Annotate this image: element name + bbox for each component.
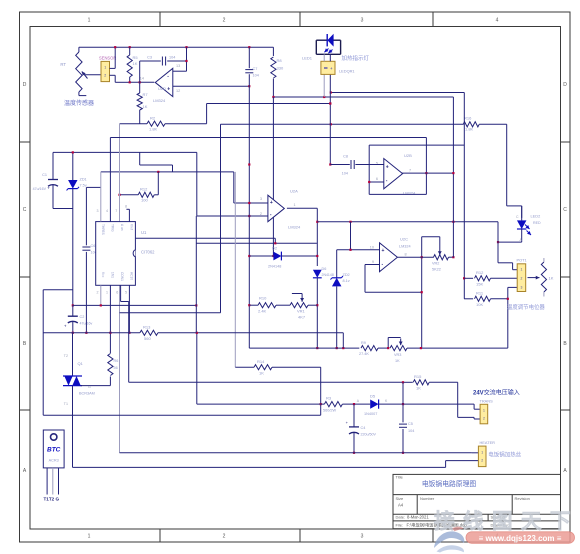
svg-text:100: 100 [141, 198, 148, 203]
svg-text:1.8K: 1.8K [465, 127, 474, 132]
svg-text:HEATER: HEATER [480, 440, 496, 445]
svg-text:13: 13 [176, 64, 180, 68]
svg-text:1K: 1K [549, 276, 554, 281]
wire [196, 333, 198, 404]
svg-text:2: 2 [223, 18, 226, 24]
svg-text:2: 2 [481, 459, 483, 463]
svg-text:温度传感器: 温度传感器 [64, 99, 94, 107]
resistor R10 [249, 296, 290, 314]
capacitor C6 [82, 187, 100, 332]
svg-text:T1T2 G: T1T2 G [44, 497, 60, 502]
op-amp U2C [370, 237, 411, 272]
svg-text:56: 56 [114, 366, 118, 370]
node [109, 332, 111, 334]
wire [43, 209, 73, 416]
wire top rail [79, 46, 274, 48]
node [100, 304, 198, 306]
svg-text:LM324: LM324 [153, 98, 166, 103]
svg-text:ZD2: ZD2 [343, 273, 350, 277]
wire [320, 367, 322, 415]
svg-text:1K: 1K [143, 104, 148, 109]
svg-text:8: 8 [125, 205, 127, 209]
potentiometer VR2 [422, 237, 454, 272]
svg-text:1N4007: 1N4007 [364, 412, 377, 416]
resistor R15 [403, 374, 458, 391]
capacitor C4 [346, 404, 377, 453]
svg-text:TRIG: TRIG [111, 224, 115, 232]
wire pin6 [106, 285, 110, 353]
node [421, 256, 423, 258]
wire [110, 75, 130, 82]
node [85, 332, 87, 334]
svg-text:2: 2 [260, 212, 262, 216]
node [248, 202, 250, 204]
wire [110, 47, 116, 68]
resistor R2 [120, 116, 207, 132]
svg-text:Vref: Vref [130, 224, 134, 230]
svg-text:U1: U1 [141, 230, 147, 235]
wire [140, 152, 173, 172]
wire [329, 74, 331, 164]
wire pin1 [97, 172, 101, 222]
svg-text:1K: 1K [395, 359, 400, 363]
svg-text:R6: R6 [114, 359, 119, 363]
svg-text:C6: C6 [91, 244, 96, 248]
svg-text:1: 1 [481, 451, 483, 455]
svg-text:VR1: VR1 [297, 309, 306, 314]
svg-text:10: 10 [370, 246, 374, 250]
node [128, 332, 130, 334]
svg-text:File:: File: [396, 522, 404, 527]
svg-text:8: 8 [405, 253, 407, 257]
wire [421, 237, 423, 348]
diode D2 [249, 246, 317, 269]
node [272, 91, 332, 104]
op-amp U2B [376, 153, 416, 196]
svg-text:5: 5 [125, 291, 127, 295]
node [129, 81, 141, 83]
resistor R17 [464, 270, 517, 287]
svg-text:2: 2 [104, 74, 106, 78]
svg-text:ZD1: ZD1 [80, 178, 87, 182]
wire [273, 96, 453, 98]
wire pin7 [116, 285, 129, 301]
LED1 heating indicator [316, 34, 340, 55]
node [272, 255, 274, 257]
svg-text:1: 1 [294, 203, 296, 207]
wire [350, 222, 352, 250]
svg-text:+: + [64, 324, 67, 329]
svg-text:1N1: 1N1 [111, 272, 115, 278]
IC U1 CI7062 [96, 222, 155, 286]
wire pin3 [115, 209, 117, 213]
node [274, 242, 276, 244]
triac Q1 [63, 333, 95, 468]
label heater wire [488, 451, 522, 459]
svg-text:BTC: BTC [47, 447, 61, 454]
wire [234, 172, 268, 203]
svg-text:Q1: Q1 [78, 361, 84, 366]
svg-text:+: + [386, 164, 389, 170]
svg-text:C3: C3 [147, 56, 152, 60]
label [339, 69, 355, 74]
wire bus [110, 137, 426, 139]
node [463, 277, 465, 279]
node [72, 151, 74, 153]
svg-text:2.4K: 2.4K [258, 309, 267, 314]
wire [425, 138, 427, 195]
wire [53, 208, 73, 210]
potentiometer external [528, 258, 554, 297]
LED2 [516, 206, 541, 242]
svg-text:BCR3AM: BCR3AM [79, 392, 95, 396]
svg-text:THRES: THRES [101, 224, 105, 235]
svg-text:Date:: Date: [396, 514, 406, 519]
watermark url pill [466, 532, 575, 544]
svg-text:1: 1 [520, 268, 522, 272]
svg-text:27.4K: 27.4K [359, 352, 369, 356]
svg-text:104: 104 [169, 56, 175, 60]
wire [197, 152, 268, 216]
resistor R16 [463, 116, 507, 132]
svg-text:3: 3 [97, 209, 99, 213]
svg-text:104: 104 [253, 74, 259, 78]
connector J1 SENSOR [99, 56, 116, 82]
wire [458, 382, 480, 419]
svg-text:CI7062: CI7062 [141, 250, 155, 255]
svg-text:104: 104 [408, 429, 414, 433]
node [452, 172, 454, 174]
svg-text:+: + [330, 66, 333, 71]
wire [120, 452, 479, 454]
wire [474, 404, 480, 409]
svg-text:Revision: Revision [515, 496, 530, 501]
diode D5 [357, 394, 474, 416]
svg-text:Vcc: Vcc [101, 272, 105, 278]
wire pin5 [73, 285, 197, 305]
node [425, 172, 427, 174]
svg-text:LEDQR1: LEDQR1 [339, 69, 355, 74]
wire [173, 85, 250, 87]
node [353, 452, 404, 454]
zener diode ZD2 [330, 250, 349, 348]
label 24VAC [473, 389, 520, 397]
svg-text:2N4148: 2N4148 [268, 265, 281, 269]
wire [369, 144, 464, 146]
connector TRANS [480, 398, 494, 424]
node [72, 304, 74, 306]
capacitor C1 [33, 152, 58, 208]
node [248, 163, 250, 306]
svg-text:7: 7 [115, 209, 117, 213]
svg-text:1: 1 [104, 66, 106, 70]
connector LEDQR1 [321, 61, 335, 74]
wire [324, 54, 330, 61]
svg-text:R12: R12 [140, 187, 148, 192]
wire [221, 123, 464, 125]
svg-text:3: 3 [361, 18, 364, 24]
wire [398, 256, 434, 258]
node [336, 347, 338, 349]
wire [101, 171, 234, 173]
wire [249, 347, 359, 349]
wire [53, 151, 197, 153]
svg-text:R15: R15 [414, 374, 422, 379]
svg-text:LM324: LM324 [399, 245, 411, 249]
diode D6 [313, 267, 334, 348]
svg-text:D: D [23, 82, 27, 88]
resistor R7 [137, 82, 148, 123]
wire [507, 299, 509, 348]
svg-text:8-Mar-2021: 8-Mar-2021 [407, 515, 429, 520]
svg-text:6: 6 [116, 291, 118, 295]
wire [135, 238, 275, 243]
svg-text:电饭锅加热丝: 电饭锅加热丝 [488, 451, 522, 459]
potentiometer VR3 [388, 338, 508, 364]
svg-text:+: + [270, 200, 273, 206]
watermark logo [434, 527, 464, 553]
thermistor RT [60, 47, 100, 95]
svg-text:Size: Size [396, 496, 405, 501]
resistor R18 [464, 287, 517, 307]
wire [323, 74, 325, 97]
wire [368, 145, 370, 194]
svg-text:LED2: LED2 [531, 214, 541, 219]
wire [119, 124, 121, 453]
svg-text:C8: C8 [343, 155, 348, 159]
svg-text:10K: 10K [476, 302, 483, 307]
node [72, 332, 74, 334]
svg-text:Title: Title [396, 475, 404, 480]
svg-text:温度调节电位器: 温度调节电位器 [507, 303, 545, 311]
capacitor C8 [330, 155, 384, 176]
svg-text:CON1: CON1 [120, 272, 124, 281]
svg-text:4: 4 [106, 209, 108, 213]
node [118, 194, 120, 196]
svg-text:2: 2 [520, 277, 522, 281]
wire [365, 265, 422, 293]
svg-text:VR2: VR2 [432, 262, 439, 266]
resistor R12 [120, 172, 159, 203]
svg-text:加热指示灯: 加热指示灯 [342, 54, 370, 62]
resistor R6 [81, 354, 119, 386]
svg-text:TRANS: TRANS [480, 398, 494, 403]
svg-text:1: 1 [88, 18, 91, 24]
resistor R13 [43, 324, 343, 348]
node [320, 403, 322, 405]
watermark text [434, 509, 579, 533]
svg-text:C5: C5 [408, 422, 413, 426]
node [157, 171, 159, 173]
svg-text:AC10: AC10 [130, 272, 134, 280]
wire bus [129, 381, 403, 383]
svg-text:4: 4 [496, 18, 499, 24]
svg-text:LED1: LED1 [302, 56, 313, 61]
svg-text:12: 12 [176, 89, 180, 93]
svg-text:104: 104 [342, 172, 348, 176]
svg-text:VR3: VR3 [394, 353, 401, 357]
resistor R9 [359, 341, 389, 356]
resistor R5 [127, 47, 138, 82]
svg-text:7: 7 [409, 169, 411, 173]
svg-text:U2A: U2A [290, 189, 298, 194]
wire pin4 [125, 205, 129, 222]
svg-text:4K7: 4K7 [298, 315, 306, 320]
node [421, 291, 423, 293]
node [342, 347, 422, 349]
node [114, 46, 250, 48]
svg-text:2N4148: 2N4148 [322, 273, 334, 277]
wire [369, 181, 384, 183]
svg-text:R3: R3 [326, 396, 332, 401]
svg-text:U2D: U2D [158, 86, 166, 91]
wire [220, 124, 222, 312]
node [330, 123, 332, 125]
svg-text:R12: R12 [476, 270, 484, 275]
svg-text:2: 2 [223, 534, 226, 540]
svg-text:560/2W: 560/2W [323, 409, 337, 413]
wire [73, 461, 479, 468]
svg-text:2: 2 [97, 291, 99, 295]
svg-text:330: 330 [277, 66, 284, 71]
resistor R3 [197, 396, 370, 413]
zener diode ZD1 [67, 152, 87, 208]
svg-text:POT1: POT1 [517, 258, 527, 263]
wire [507, 206, 522, 218]
svg-text:3: 3 [361, 534, 364, 540]
wire [337, 249, 380, 251]
svg-text:15K: 15K [476, 282, 483, 287]
svg-text:A un: A un [120, 224, 124, 231]
svg-text:24V交流电压输入: 24V交流电压输入 [473, 389, 520, 397]
wire [369, 193, 426, 195]
svg-text:1: 1 [88, 534, 91, 540]
wire pin8 [125, 285, 129, 333]
capacitor C2 [64, 305, 93, 332]
op-amp U2D [140, 64, 180, 103]
wire [506, 124, 508, 206]
node [402, 381, 404, 383]
connector POT1 [517, 258, 527, 292]
svg-text:R10: R10 [259, 296, 267, 301]
svg-text:5K22: 5K22 [432, 268, 441, 272]
svg-text:ACR3: ACR3 [49, 459, 59, 463]
svg-text:R9: R9 [361, 341, 366, 345]
svg-text:47u/16V: 47u/16V [33, 187, 47, 191]
svg-text:220u/50V: 220u/50V [361, 433, 377, 437]
svg-text:U2C: U2C [400, 237, 408, 242]
svg-text:D6: D6 [322, 267, 327, 271]
svg-text:D5: D5 [370, 394, 376, 399]
wire bus [43, 414, 321, 416]
svg-text:1: 1 [483, 409, 485, 413]
node [248, 85, 250, 87]
node [316, 221, 318, 257]
wire bus [317, 221, 498, 223]
svg-text:R13: R13 [143, 324, 151, 329]
node [497, 241, 499, 243]
node [185, 60, 187, 62]
svg-text:C1: C1 [42, 173, 47, 177]
svg-text:C: C [23, 207, 27, 213]
wire [331, 92, 465, 94]
svg-text:+: + [382, 248, 385, 254]
svg-text:3: 3 [520, 286, 522, 290]
wire [120, 312, 221, 314]
svg-text:R8: R8 [277, 58, 283, 63]
svg-text:T2: T2 [64, 354, 68, 358]
wire [173, 47, 187, 71]
svg-text:14: 14 [140, 77, 144, 81]
node [196, 332, 198, 334]
svg-text:6: 6 [376, 177, 378, 181]
node [349, 221, 454, 223]
wire [195, 216, 197, 333]
svg-text:C2: C2 [80, 315, 85, 319]
svg-text:U2B: U2B [404, 153, 412, 158]
wire [196, 242, 317, 244]
potentiometer VR1 [290, 294, 317, 320]
svg-text:8.1v: 8.1v [343, 279, 350, 283]
node [368, 181, 370, 183]
wire [287, 208, 317, 266]
node [316, 304, 318, 349]
label pot [507, 303, 545, 311]
wire [402, 172, 454, 174]
svg-text:SENSOR: SENSOR [99, 56, 116, 61]
svg-text:C7: C7 [253, 67, 258, 71]
TO-220 package [43, 430, 64, 502]
resistor R8 [271, 47, 284, 96]
svg-text:1K: 1K [416, 386, 421, 391]
svg-text:9: 9 [372, 260, 374, 264]
svg-text:1K: 1K [133, 61, 138, 66]
svg-text:1K: 1K [259, 371, 264, 376]
svg-text:≡ www.dqjs123.com ≡: ≡ www.dqjs123.com ≡ [479, 534, 562, 543]
title block [393, 474, 561, 528]
wire [128, 302, 130, 383]
wire [498, 222, 517, 270]
wire [498, 241, 522, 243]
svg-text:1.8K: 1.8K [149, 127, 158, 132]
node [329, 102, 331, 165]
wire [207, 104, 331, 124]
svg-text:C4: C4 [361, 426, 366, 430]
node [349, 249, 351, 251]
svg-text:R2: R2 [150, 116, 156, 121]
svg-text:A4: A4 [398, 503, 404, 508]
svg-text:D2: D2 [272, 246, 278, 251]
svg-text:560: 560 [144, 336, 151, 341]
svg-text:电饭锅电路原理图: 电饭锅电路原理图 [422, 479, 477, 488]
svg-text:2: 2 [483, 417, 485, 421]
svg-text:T1: T1 [64, 402, 68, 406]
wire pin2 [106, 138, 110, 222]
svg-text:R7: R7 [143, 92, 149, 97]
svg-text:R16: R16 [464, 116, 472, 121]
label heating indicator [342, 54, 370, 62]
wire [452, 97, 454, 257]
svg-text:7.5v: 7.5v [80, 184, 87, 188]
svg-text:RED: RED [533, 221, 541, 225]
label LED1 [302, 56, 313, 61]
capacitor C5 [399, 382, 414, 453]
svg-text:R11: R11 [476, 291, 484, 296]
svg-text:R14: R14 [257, 359, 265, 364]
capacitor C3 [140, 56, 187, 83]
svg-text:+: + [47, 186, 50, 191]
wire [234, 172, 236, 367]
